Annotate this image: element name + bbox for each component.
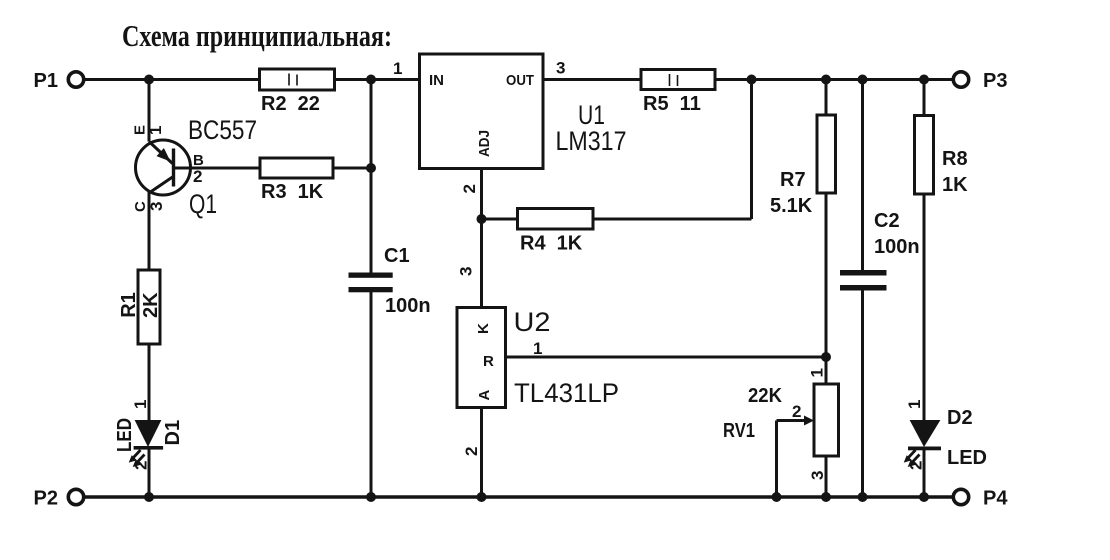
wire top rail [84, 78, 954, 81]
resistor R3 [260, 158, 333, 203]
wire R1 to D1 [148, 344, 151, 421]
svg-text:R5 11: R5 11 [643, 93, 701, 115]
svg-text:R2 22: R2 22 [261, 93, 320, 115]
wire U2 ref row to RV1 [506, 356, 827, 359]
terminal P1 [34, 70, 84, 92]
resistor R1 [118, 270, 162, 344]
svg-text:22K: 22K [748, 385, 783, 407]
svg-text:100n: 100n [874, 236, 920, 258]
shunt reference U2 TL431 [457, 267, 620, 456]
LED D2 [904, 400, 987, 470]
junction top rail at C2 column [858, 75, 868, 85]
wire R7 RV1 column [825, 80, 828, 385]
svg-text:ADJ: ADJ [476, 130, 493, 157]
wire U2 anode drop [480, 408, 483, 498]
svg-text:1: 1 [393, 59, 402, 78]
svg-text:3: 3 [457, 267, 476, 276]
svg-text:LED: LED [947, 447, 987, 469]
svg-text:BC557: BC557 [188, 115, 257, 145]
svg-text:3: 3 [147, 202, 166, 211]
junction top rail at R4 riser [747, 75, 757, 85]
transistor Q1 [132, 115, 258, 219]
svg-text:1: 1 [131, 400, 150, 409]
svg-text:2: 2 [792, 402, 801, 421]
potentiometer RV1 [723, 368, 839, 480]
wire D2 to bottom rail [923, 448, 926, 497]
junction top rail at Q1 emitter [144, 75, 154, 85]
terminal P2 [34, 488, 84, 510]
svg-text:2: 2 [462, 447, 481, 456]
svg-text:2: 2 [193, 167, 202, 186]
resistor R5 [641, 70, 715, 116]
wire C1 column upper [370, 80, 373, 273]
svg-text:TL431LP: TL431LP [514, 378, 619, 408]
capacitor C1 [349, 245, 431, 317]
svg-text:2: 2 [132, 461, 151, 470]
junction U2 ref R7 RV1 [821, 352, 831, 362]
svg-text:R8: R8 [942, 148, 968, 170]
junction bottom rail at D1 [144, 492, 154, 502]
svg-text:P2: P2 [34, 488, 58, 510]
svg-text:C2: C2 [874, 210, 900, 232]
wire RV1 bottom to rail [825, 456, 828, 497]
svg-text:OUT: OUT [506, 72, 534, 89]
svg-text:1: 1 [533, 339, 542, 358]
svg-text:1: 1 [905, 400, 924, 409]
terminal P4 [953, 488, 1008, 510]
wire Q1 base row to C1 column [174, 167, 371, 170]
resistor R4 [518, 209, 594, 255]
svg-text:RV1: RV1 [723, 420, 755, 442]
svg-text:R7: R7 [780, 169, 806, 191]
svg-text:3: 3 [808, 471, 827, 480]
svg-text:1: 1 [808, 368, 827, 377]
svg-text:1: 1 [146, 126, 165, 135]
wire C2 column upper [861, 80, 864, 271]
junction bottom rail at RV1 wiper [772, 492, 782, 502]
junction top rail at R8 column [919, 75, 929, 85]
svg-text:Схема принципиальная:: Схема принципиальная: [122, 18, 392, 53]
svg-text:R4 1K: R4 1K [520, 233, 583, 255]
junction bottom rail at C2 [858, 492, 868, 502]
resistor R8 [915, 116, 969, 197]
junction bottom rail at D2 [919, 492, 929, 502]
svg-text:R1: R1 [118, 292, 140, 318]
wire RV1 wiper drop [775, 421, 778, 498]
wire R4 row [482, 218, 752, 221]
svg-text:LED: LED [114, 418, 136, 452]
wire bottom rail [84, 495, 954, 499]
wire Q1 emitter drop [148, 80, 151, 142]
junction bottom rail at C1 [366, 492, 376, 502]
wire Q1 collector to R1 [148, 192, 151, 270]
svg-text:LM317: LM317 [556, 126, 627, 156]
svg-text:D1: D1 [162, 420, 184, 446]
svg-text:2: 2 [460, 184, 479, 193]
svg-text:U2: U2 [514, 307, 551, 337]
svg-text:IN: IN [429, 72, 444, 89]
wire U1 ADJ to U2 cathode [480, 169, 483, 309]
svg-text:1K: 1K [942, 174, 968, 196]
svg-text:2K: 2K [140, 292, 162, 318]
svg-text:P1: P1 [34, 70, 58, 92]
wire R4 riser to top rail [750, 80, 753, 220]
svg-text:C1: C1 [384, 245, 410, 267]
junction bottom rail at U2 anode [477, 492, 487, 502]
terminal P3 [953, 70, 1007, 92]
regulator U1 LM317 [393, 54, 627, 194]
junction U1 ADJ and R4 [477, 214, 487, 224]
svg-text:5.1K: 5.1K [770, 195, 813, 217]
svg-text:A: A [476, 390, 493, 401]
svg-text:K: K [475, 323, 492, 334]
LED D1 [114, 400, 184, 470]
svg-text:3: 3 [556, 59, 565, 78]
junction top rail at R7 column [821, 75, 831, 85]
wire C2 column lower [861, 290, 864, 497]
svg-text:R3 1K: R3 1K [261, 181, 324, 203]
svg-text:2: 2 [907, 461, 926, 470]
svg-text:D2: D2 [947, 407, 973, 429]
svg-text:P4: P4 [983, 488, 1008, 510]
junction R3 to C1 column [366, 163, 376, 173]
svg-text:R: R [483, 353, 494, 370]
junction top rail at C1 column [366, 75, 376, 85]
wire D1 to bottom rail [148, 448, 151, 497]
svg-text:P3: P3 [983, 70, 1007, 92]
junction bottom rail at RV1 pin3 [821, 492, 831, 502]
svg-text:100n: 100n [385, 295, 431, 317]
svg-text:Q1: Q1 [189, 189, 217, 219]
resistor R2 [260, 69, 335, 115]
wire C1 column lower [370, 292, 373, 497]
capacitor C2 [840, 210, 920, 291]
wire R8 D2 column [923, 80, 926, 421]
resistor R7 [770, 115, 836, 217]
